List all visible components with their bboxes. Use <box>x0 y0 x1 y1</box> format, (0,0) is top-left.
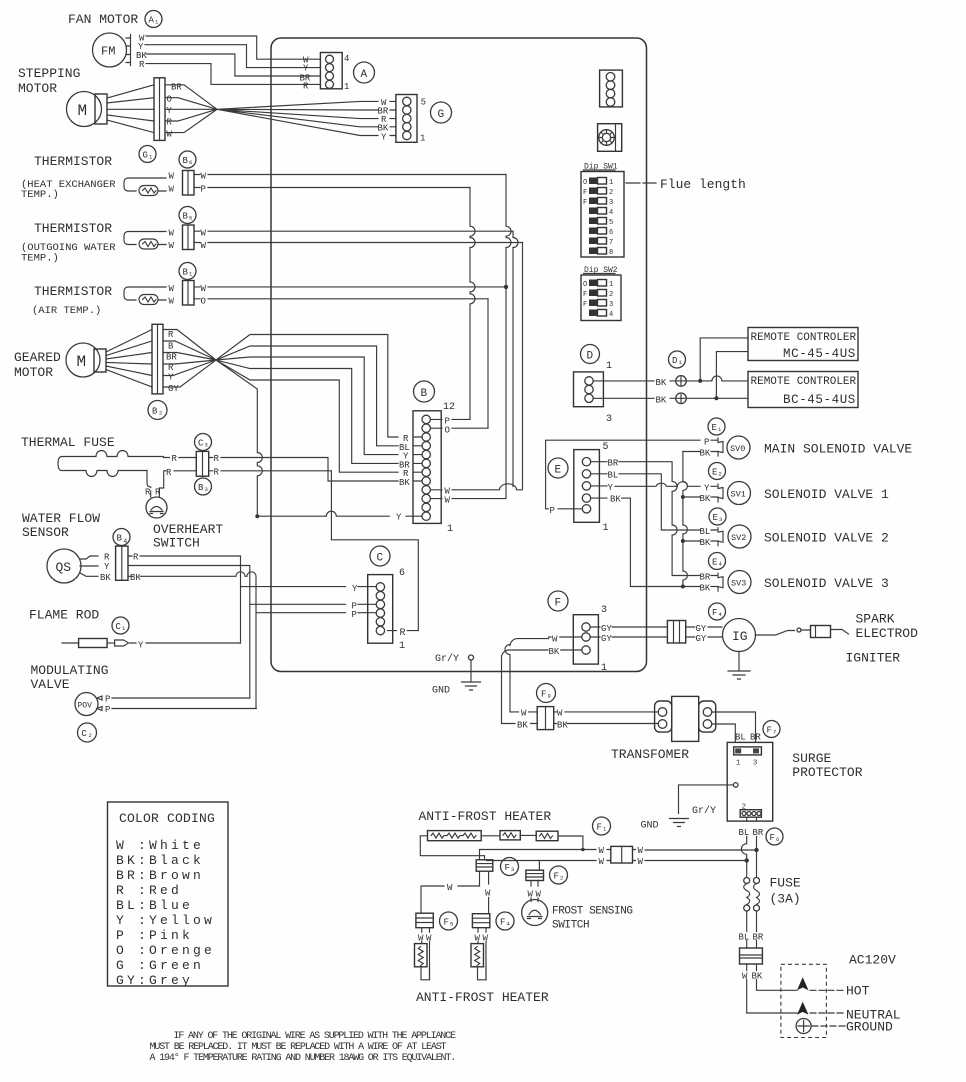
svg-text:B: B <box>198 483 204 493</box>
svg-text:3: 3 <box>606 414 612 425</box>
svg-text:D: D <box>672 356 677 366</box>
D pin3 wire BK <box>593 397 748 399</box>
svg-text:Y: Y <box>168 373 174 383</box>
vertical W x513 <box>513 231 518 486</box>
svg-text:Y: Y <box>352 584 358 594</box>
svg-text:TEMP.): TEMP.) <box>21 253 59 265</box>
svg-text:WATER FLOW: WATER FLOW <box>22 511 100 526</box>
plus terminal 1 <box>676 376 687 387</box>
T3 W wire <box>194 286 506 288</box>
fuse symbols <box>744 878 750 932</box>
connector F4b <box>472 914 489 928</box>
footer text <box>150 1031 457 1064</box>
svg-text:3: 3 <box>511 866 514 873</box>
svg-text:1: 1 <box>609 281 613 289</box>
svg-text:W: W <box>169 172 175 182</box>
svg-text:MOTOR: MOTOR <box>18 81 57 96</box>
svg-text:QS: QS <box>56 560 72 575</box>
svg-text:E: E <box>712 468 717 478</box>
svg-text:M: M <box>78 102 88 120</box>
transformer <box>655 696 716 741</box>
svg-text:ANTI-FROST HEATER: ANTI-FROST HEATER <box>419 809 552 824</box>
E BK wire down to SV3 BK <box>591 498 700 586</box>
geared motor M <box>66 343 106 377</box>
B pin11 O wire <box>431 427 489 429</box>
h1 wire to F1 <box>480 850 611 860</box>
BK wire to HOT <box>757 980 798 991</box>
svg-text:BK: BK <box>610 495 621 505</box>
svg-text:W: W <box>169 229 175 239</box>
circled F <box>548 591 568 611</box>
fuse R wire right to vertical 328 then B BK pin <box>209 458 422 482</box>
connector F3 <box>476 860 493 871</box>
svg-text:3: 3 <box>601 605 607 616</box>
circled A1 <box>145 11 162 28</box>
E BR wire to SV3 <box>591 462 700 576</box>
wire FM R to A pin1 <box>146 64 320 85</box>
connector F9 <box>537 707 554 730</box>
svg-text:W: W <box>169 297 175 307</box>
svg-text:GY:Grey: GY:Grey <box>116 973 193 988</box>
QS wires to B4 <box>80 556 98 576</box>
svg-text:GEARED: GEARED <box>14 350 61 365</box>
svg-text:R: R <box>145 488 151 498</box>
svg-text:1: 1 <box>420 134 425 144</box>
COLOR CODING box <box>108 802 229 986</box>
circled B1 <box>179 263 196 280</box>
wires bar to crossing <box>163 330 216 388</box>
thermistor 3 symbol <box>124 287 166 305</box>
svg-text:P: P <box>550 506 555 516</box>
svg-text:3: 3 <box>753 760 757 768</box>
svg-text:BL: BL <box>739 828 750 838</box>
connector G <box>396 95 417 143</box>
svg-text:1: 1 <box>447 524 453 535</box>
svg-text:W: W <box>418 934 424 944</box>
svg-text:C: C <box>116 622 122 632</box>
connector B6 <box>183 171 195 196</box>
svg-text:B: B <box>152 407 158 417</box>
overheat switch wires into circle <box>150 491 152 497</box>
svg-text:BR:Brown: BR:Brown <box>116 868 204 883</box>
svg-text:O :Orenge: O :Orenge <box>116 943 215 958</box>
svg-text:MODULATING: MODULATING <box>31 663 109 678</box>
remote controller box 2 <box>748 372 858 408</box>
surge top component <box>734 747 762 755</box>
svg-text:COLOR CODING: COLOR CODING <box>119 811 215 826</box>
svg-text:5: 5 <box>450 921 453 928</box>
svg-text:W: W <box>201 229 207 239</box>
svg-text:THERMISTOR: THERMISTOR <box>34 221 112 236</box>
svg-text:Y: Y <box>303 64 309 74</box>
svg-text:8: 8 <box>609 249 613 257</box>
connector F1 <box>611 846 633 863</box>
vertical W2 x522.5 <box>522 243 524 489</box>
connector bar B2 <box>152 324 163 394</box>
connector F5 <box>416 913 433 928</box>
svg-text:O: O <box>167 95 172 105</box>
svg-text:A 194° F TEMPERATURE RATING AN: A 194° F TEMPERATURE RATING AND NUMBER 1… <box>150 1052 456 1064</box>
svg-text:W: W <box>201 284 207 294</box>
stepping motor fan-out wires to bar G1 <box>107 85 154 133</box>
POV P wires right to verticals <box>112 698 256 709</box>
svg-text:BR: BR <box>166 353 177 363</box>
connector B1 <box>183 281 195 306</box>
fan motor FM <box>93 33 131 67</box>
T3 O wire <box>194 298 488 300</box>
heater element left <box>415 944 428 967</box>
control board outline <box>271 38 647 672</box>
wires crossing to connector G <box>217 101 378 135</box>
svg-text:R: R <box>214 454 220 464</box>
vertical P wire x470 with hops <box>470 188 475 420</box>
svg-text:BL: BL <box>608 471 619 481</box>
circled D <box>581 345 600 364</box>
svg-text:MUST BE REPLACED. IT MUST BE R: MUST BE REPLACED. IT MUST BE REPLACED WI… <box>150 1042 447 1053</box>
geared motor fan-out to bar B2 <box>106 330 152 388</box>
branch down into F2 <box>538 861 540 871</box>
circled C2 <box>78 723 97 742</box>
svg-text:7: 7 <box>609 239 613 247</box>
svg-text:P: P <box>105 705 110 715</box>
riser to remote 1 second wire <box>716 352 748 399</box>
svg-text:B: B <box>183 156 189 166</box>
svg-text:F: F <box>583 301 587 309</box>
svg-text:BR: BR <box>171 83 182 93</box>
svg-text:5: 5 <box>189 215 192 222</box>
Flue length callout <box>626 182 656 184</box>
svg-text:GY: GY <box>601 624 612 634</box>
svg-text:W: W <box>447 883 453 893</box>
svg-text:ELECTROD: ELECTROD <box>856 626 919 641</box>
QS Y wire right, down at 249.8 <box>128 566 250 699</box>
svg-text:B: B <box>183 212 189 222</box>
F W BK wires left then down <box>505 637 582 712</box>
svg-text:MAIN SOLENOID VALVE: MAIN SOLENOID VALVE <box>764 442 912 457</box>
svg-text:W: W <box>483 934 489 944</box>
svg-text:GY: GY <box>696 624 707 634</box>
svg-text:B: B <box>183 268 189 278</box>
svg-text:3: 3 <box>719 516 722 523</box>
svg-text:O: O <box>201 297 206 307</box>
svg-text:Y: Y <box>608 483 614 493</box>
svg-text:R: R <box>166 468 172 478</box>
svg-text:SWITCH: SWITCH <box>153 536 200 551</box>
svg-text:BL: BL <box>735 733 746 743</box>
svg-text:GROUND: GROUND <box>846 1020 893 1035</box>
svg-text:2: 2 <box>159 410 162 417</box>
F GY wires right to inline connector <box>590 627 667 637</box>
h3 wire to F1 bottom <box>487 860 611 862</box>
svg-text:2: 2 <box>609 189 613 197</box>
svg-text:BK: BK <box>700 494 711 504</box>
surge left wire and terminal <box>679 785 734 814</box>
circled F2 <box>550 866 568 884</box>
svg-text:1: 1 <box>606 361 612 372</box>
svg-text:W: W <box>169 185 175 195</box>
svg-text:THERMAL FUSE: THERMAL FUSE <box>21 435 115 450</box>
svg-text:C: C <box>377 553 384 565</box>
svg-text:PROTECTOR: PROTECTOR <box>792 765 862 780</box>
transformer to surge wires <box>712 712 756 742</box>
svg-text:Y :Yellow: Y :Yellow <box>116 913 215 928</box>
svg-text:B: B <box>421 388 428 400</box>
svg-text:W: W <box>557 709 563 719</box>
F2 legs to frost switch <box>531 881 538 902</box>
circled B <box>414 381 435 402</box>
thermistor 1 symbol <box>124 178 166 196</box>
svg-text:W: W <box>552 635 558 645</box>
connector F2 <box>526 870 544 880</box>
svg-text:W: W <box>528 890 534 900</box>
svg-text:Y: Y <box>104 562 110 572</box>
fuse bottom lead down to overheat <box>147 471 151 488</box>
svg-text:SOLENOID VALVE 1: SOLENOID VALVE 1 <box>764 487 889 502</box>
junction T3W joins V506 <box>504 285 508 289</box>
BL vertical with hop, to fuse <box>741 837 746 878</box>
circled G <box>431 102 452 123</box>
svg-text:1: 1 <box>344 82 349 92</box>
element 3 <box>536 831 558 841</box>
igniter ground <box>728 652 750 680</box>
svg-text:TEMP.): TEMP.) <box>21 189 59 201</box>
svg-text:BL:Blue: BL:Blue <box>116 898 193 913</box>
svg-text:O: O <box>583 179 587 187</box>
svg-text:SURGE: SURGE <box>792 751 831 766</box>
connector E <box>574 450 600 523</box>
POV plugs and P labels <box>97 696 102 711</box>
svg-text:W: W <box>599 846 605 856</box>
svg-text:R :Red: R :Red <box>116 883 182 898</box>
F4b wires down <box>478 928 486 980</box>
heater right end down to h1 <box>558 836 583 850</box>
svg-text:A: A <box>149 16 155 26</box>
connector B5 <box>183 225 195 250</box>
P branch to C pin4 <box>250 603 376 605</box>
svg-text:AC120V: AC120V <box>849 953 896 968</box>
B W pin wires right <box>431 484 523 499</box>
svg-text:IF ANY OF THE ORIGINAL WIRE AS: IF ANY OF THE ORIGINAL WIRE AS SUPPLIED … <box>174 1031 457 1042</box>
D pin1 wire BK to remotes <box>593 376 748 381</box>
svg-text:2: 2 <box>609 291 613 299</box>
svg-text:VALVE: VALVE <box>31 677 70 692</box>
svg-text:W: W <box>599 857 605 867</box>
svg-text:W: W <box>201 241 207 251</box>
stepping motor M <box>67 92 108 127</box>
circled F5 <box>440 912 458 930</box>
svg-text:BK: BK <box>700 449 711 459</box>
GROUND circled plus <box>796 1019 811 1034</box>
svg-text:W: W <box>521 709 527 719</box>
svg-text:6: 6 <box>776 836 779 843</box>
svg-text:P: P <box>201 185 206 195</box>
circled C <box>370 546 390 566</box>
svg-text:B: B <box>168 342 174 352</box>
svg-text:R: R <box>214 468 220 478</box>
BK bus vertical <box>683 452 688 587</box>
heater row links <box>481 834 536 836</box>
svg-text:1: 1 <box>603 523 609 534</box>
QS R wire right, down at 240.5, to C pin6 <box>128 556 376 643</box>
svg-text:6: 6 <box>399 568 405 579</box>
E P wire from pin5 up and right to SV0 <box>546 440 700 509</box>
circled B4 <box>113 529 130 546</box>
svg-text:R: R <box>139 60 145 70</box>
remote controller box 1 <box>748 328 858 361</box>
svg-text:BR: BR <box>700 573 711 583</box>
svg-text:Gr/Y: Gr/Y <box>435 653 459 665</box>
svg-text:B: B <box>117 534 123 544</box>
svg-text:REMOTE CONTROLER: REMOTE CONTROLER <box>751 376 857 388</box>
power connector <box>740 948 763 964</box>
svg-text:BL: BL <box>739 933 750 943</box>
svg-text:G: G <box>438 109 445 121</box>
svg-text:HOT: HOT <box>846 984 870 999</box>
DIP SW2 <box>581 275 621 321</box>
svg-text:Y: Y <box>381 133 387 143</box>
svg-text:W: W <box>169 284 175 294</box>
svg-text:FUSE: FUSE <box>770 876 801 891</box>
svg-text:BK: BK <box>752 972 763 982</box>
svg-text:F: F <box>505 863 510 873</box>
circled F4b <box>496 912 514 930</box>
circled B2 <box>148 401 167 420</box>
connector bar G1 <box>154 78 165 141</box>
svg-text:1: 1 <box>601 663 607 674</box>
svg-text:Gr/Y: Gr/Y <box>692 805 716 817</box>
svg-text:5: 5 <box>421 98 426 108</box>
igniter IG <box>723 619 756 652</box>
HOT arrow <box>797 977 809 990</box>
connector F <box>573 615 598 664</box>
svg-text:FROST SENSING: FROST SENSING <box>552 906 633 918</box>
QS BK wire right, down at 256.3 <box>128 572 256 709</box>
svg-text:4: 4 <box>609 311 613 319</box>
svg-text:1: 1 <box>736 760 740 768</box>
thermistor 2 symbol <box>124 232 166 250</box>
circled C1 <box>112 617 129 634</box>
svg-text:3: 3 <box>609 199 613 207</box>
svg-text:4: 4 <box>344 54 349 64</box>
svg-text:F: F <box>712 608 717 618</box>
F1 to BL BR verticals <box>633 850 757 861</box>
plus terminal 2 <box>676 393 687 404</box>
svg-text:F: F <box>583 199 587 207</box>
svg-text:FLAME ROD: FLAME ROD <box>29 608 99 623</box>
svg-text:BK: BK <box>130 573 141 583</box>
svg-text:SV3: SV3 <box>731 579 746 589</box>
rotary switch component <box>598 124 622 152</box>
svg-text:W: W <box>475 934 481 944</box>
vertical O wire x488 <box>487 299 489 428</box>
circled E1 <box>708 418 725 435</box>
fuse top wire to C3 <box>164 457 197 459</box>
svg-text:W: W <box>201 172 207 182</box>
svg-text:E: E <box>712 558 717 568</box>
svg-text:Flue length: Flue length <box>660 177 746 192</box>
svg-text:O: O <box>445 426 450 436</box>
connector B4 <box>116 546 128 580</box>
svg-text:W: W <box>485 889 491 899</box>
svg-text:9: 9 <box>548 693 551 700</box>
modulating valve POV <box>75 693 98 716</box>
circled B3 <box>195 478 212 495</box>
circled E <box>548 458 568 478</box>
ground at surge <box>670 819 689 827</box>
wires F9 to transformer <box>554 712 658 724</box>
top heater row: element 1 <box>428 831 482 841</box>
circled F7 <box>763 721 780 738</box>
svg-text:F: F <box>583 189 587 197</box>
svg-text:A: A <box>361 69 368 81</box>
circled E3 <box>709 508 726 525</box>
svg-text:BK: BK <box>100 573 111 583</box>
F5 wires down <box>422 928 430 980</box>
E Y wire to SV1 <box>591 482 700 487</box>
svg-text:F: F <box>555 598 562 610</box>
svg-text:IG: IG <box>732 629 748 644</box>
svg-text:E: E <box>712 423 717 433</box>
svg-text:Y: Y <box>138 641 144 651</box>
svg-text:SENSOR: SENSOR <box>22 525 69 540</box>
connector C3/B3 <box>196 451 208 476</box>
wire FM W to A pin4 <box>146 36 320 59</box>
svg-text:5: 5 <box>603 442 609 453</box>
svg-text:F: F <box>583 291 587 299</box>
svg-text:R: R <box>168 330 174 340</box>
svg-text:STEPPING: STEPPING <box>18 66 80 81</box>
svg-text:R: R <box>104 553 110 563</box>
svg-text:E: E <box>713 513 718 523</box>
svg-text:(AIR TEMP.): (AIR TEMP.) <box>32 305 101 317</box>
heater element right <box>471 944 484 967</box>
T1 W wire to vertical <box>194 174 506 176</box>
svg-text:BK: BK <box>399 478 410 488</box>
overheat switch <box>146 497 167 518</box>
svg-text:R: R <box>303 82 309 92</box>
svg-text:2: 2 <box>719 471 722 478</box>
connector D <box>574 372 604 407</box>
surge protector box <box>727 742 773 821</box>
R path into C pin1 <box>388 630 419 632</box>
svg-text:BK: BK <box>700 538 711 548</box>
circled B5 <box>179 207 196 224</box>
svg-text:F: F <box>767 726 772 736</box>
svg-text:C: C <box>198 439 204 449</box>
svg-text:BK:Black: BK:Black <box>116 853 204 868</box>
svg-text:F: F <box>554 872 559 882</box>
top-right 4-pin connector <box>600 70 623 107</box>
GY to B pin2 <box>257 511 422 516</box>
connector A <box>320 53 342 89</box>
svg-text:1: 1 <box>609 179 613 187</box>
T2 W bottom wire <box>194 242 523 244</box>
svg-text:BL: BL <box>700 527 711 537</box>
svg-text:G: G <box>143 151 148 161</box>
svg-text:F: F <box>444 918 449 928</box>
svg-text:BR: BR <box>753 828 764 838</box>
svg-text:GY: GY <box>601 634 612 644</box>
P branch to C pin3 <box>256 612 376 614</box>
svg-text:4: 4 <box>124 538 128 545</box>
svg-text:W: W <box>445 496 451 506</box>
svg-text:1: 1 <box>399 641 405 652</box>
svg-text:W: W <box>167 130 173 140</box>
heater left end down to h2 <box>420 836 484 860</box>
svg-text:MOTOR: MOTOR <box>14 365 53 380</box>
svg-text:SV0: SV0 <box>730 444 745 454</box>
wires crossing to B steps <box>216 335 422 473</box>
